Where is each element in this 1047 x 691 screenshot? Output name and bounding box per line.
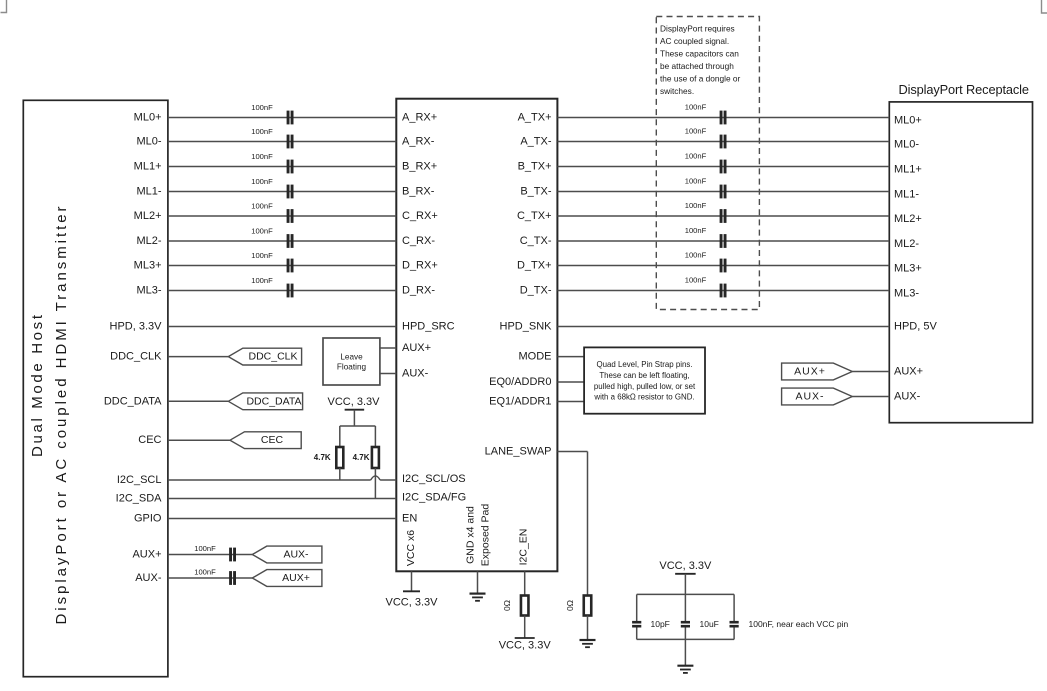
wire R2 to I2C_SDA	[374, 468, 376, 499]
wire R3 to VCC	[524, 616, 526, 639]
svg-text:AUX-: AUX-	[402, 368, 429, 380]
svg-text:AUX+: AUX+	[794, 366, 826, 378]
svg-text:LANE_SWAP: LANE_SWAP	[485, 446, 552, 458]
connector tag AUX+ (from host AUX-)	[252, 570, 322, 587]
resistor R2 4.7K	[372, 447, 379, 468]
wire GND stub	[477, 571, 479, 593]
capacitor 100nF (ML1- lane)	[287, 185, 290, 199]
svg-text:B_RX+: B_RX+	[402, 161, 437, 173]
wire VCC bar to rail	[353, 410, 355, 426]
DisplayPort Receptacle box	[889, 102, 1032, 423]
svg-text:A_TX+: A_TX+	[518, 112, 552, 124]
svg-text:be attached through: be attached through	[660, 61, 734, 71]
svg-text:ML0+: ML0+	[134, 112, 162, 124]
capacitor 100nF (ML0+ lane)	[287, 111, 290, 125]
ground (decoupling)	[677, 665, 693, 667]
capacitor 100nF (A_TX+ lane)	[720, 111, 723, 125]
wire MODE stub	[557, 356, 584, 358]
svg-text:ML1-: ML1-	[136, 186, 161, 198]
svg-text:VCC, 3.3V: VCC, 3.3V	[499, 639, 552, 651]
wire A_TX- to ML0- (receptacle)	[557, 141, 889, 143]
connector tag DDC_DATA	[228, 393, 302, 410]
wire B_TX+ to ML1+ (receptacle)	[557, 166, 889, 168]
wire VCC x6 stub	[411, 571, 413, 591]
wire pullup rail	[340, 425, 376, 427]
svg-text:I2C_SCL: I2C_SCL	[117, 474, 162, 486]
capacitor 100nF (D_TX- lane)	[720, 284, 723, 298]
svg-text:A_TX-: A_TX-	[520, 136, 552, 148]
svg-text:A_RX-: A_RX-	[402, 136, 435, 148]
wire cap top rail	[637, 593, 734, 595]
svg-text:pulled high, pulled low, or se: pulled high, pulled low, or set	[594, 382, 696, 391]
svg-text:D_RX+: D_RX+	[402, 260, 438, 272]
wire AUX- tag to receptacle	[852, 396, 889, 398]
svg-text:C_RX-: C_RX-	[402, 235, 435, 247]
svg-text:EN: EN	[402, 513, 417, 525]
wire R4 to ground	[587, 616, 589, 641]
wire ML2- to C_RX-	[168, 240, 396, 242]
svg-text:AUX+: AUX+	[402, 342, 431, 354]
wire LANE_SWAP horizontal	[557, 451, 587, 453]
wire ML0- to A_RX-	[168, 141, 396, 143]
svg-text:AC coupled signal.: AC coupled signal.	[660, 36, 729, 46]
capacitor C1 10pF	[636, 594, 638, 621]
wire D_TX- to ML3- (receptacle)	[557, 290, 889, 292]
svg-text:DisplayPort or AC coupled HDMI: DisplayPort or AC coupled HDMI Transmitt…	[53, 207, 70, 625]
svg-text:ML1-: ML1-	[894, 189, 919, 201]
svg-text:DisplayPort Receptacle: DisplayPort Receptacle	[899, 82, 1030, 97]
svg-text:DDC_CLK: DDC_CLK	[248, 351, 297, 363]
svg-text:100nF, near each VCC pin: 100nF, near each VCC pin	[749, 619, 849, 629]
svg-text:HPD_SNK: HPD_SNK	[500, 321, 553, 333]
wire HPD 3.3V to HPD_SRC	[168, 326, 396, 328]
svg-text:100nF: 100nF	[685, 177, 707, 186]
connector tag AUX- (receptacle)	[782, 388, 853, 405]
svg-text:These can be left floating,: These can be left floating,	[599, 371, 689, 380]
svg-text:10uF: 10uF	[700, 619, 719, 629]
svg-text:ML2+: ML2+	[894, 213, 922, 225]
svg-text:D_RX-: D_RX-	[402, 285, 435, 297]
svg-text:DDC_CLK: DDC_CLK	[110, 351, 162, 363]
wire Leave Floating to AUX+	[380, 347, 396, 349]
capacitor 100nF (A_TX- lane)	[720, 135, 723, 149]
wire rail to R2	[374, 426, 376, 447]
svg-text:DDC_DATA: DDC_DATA	[246, 395, 301, 407]
svg-text:ML0+: ML0+	[894, 115, 922, 127]
wire I2C_SDA to I2C_SDA/FG	[168, 498, 396, 500]
Leave Floating note box	[323, 338, 380, 385]
svg-text:CEC: CEC	[261, 434, 284, 446]
svg-text:the use of a dongle or: the use of a dongle or	[660, 73, 740, 83]
wire CEC	[168, 439, 230, 441]
svg-text:with a 68kΩ resistor to GND.: with a 68kΩ resistor to GND.	[593, 393, 694, 402]
resistor R4 0 ohm (LANE_SWAP)	[584, 596, 592, 616]
svg-text:100nF: 100nF	[251, 177, 273, 186]
capacitor 100nF (ML1+ lane)	[287, 160, 290, 174]
svg-text:ML0-: ML0-	[136, 136, 161, 148]
wire AUX+ (host) to tag	[168, 554, 252, 556]
svg-text:100nF: 100nF	[194, 544, 216, 553]
wire DDC_DATA	[168, 400, 228, 402]
quad-level pin strap note box	[584, 347, 705, 413]
svg-text:switches.: switches.	[660, 86, 694, 96]
svg-text:ML3-: ML3-	[136, 285, 161, 297]
svg-text:ML2-: ML2-	[136, 235, 161, 247]
svg-text:Floating: Floating	[337, 363, 367, 372]
wire GPIO to EN	[168, 518, 396, 520]
svg-text:100nF: 100nF	[685, 127, 707, 136]
wire ML1- to B_RX-	[168, 191, 396, 193]
svg-text:100nF: 100nF	[251, 152, 273, 161]
wire D_TX+ to ML3+ (receptacle)	[557, 265, 889, 267]
wire R1 to I2C_SCL	[339, 468, 341, 480]
capacitor 100nF (ML0- lane)	[287, 135, 290, 149]
svg-text:ML3+: ML3+	[134, 260, 162, 272]
capacitor C2 10uF	[684, 594, 686, 621]
svg-text:B_RX-: B_RX-	[402, 186, 435, 198]
capacitor 100nF (ML3+ lane)	[287, 259, 290, 273]
svg-text:AUX-: AUX-	[795, 391, 824, 403]
svg-text:I2C_EN: I2C_EN	[518, 529, 530, 566]
wire I2C_SCL to I2C_SCL/OS (with hop over R2 leg)	[168, 479, 371, 481]
svg-text:100nF: 100nF	[685, 201, 707, 210]
svg-text:GPIO: GPIO	[134, 513, 162, 525]
resistor R1 4.7K	[336, 447, 343, 468]
capacitor 100nF (D_TX+ lane)	[720, 259, 723, 273]
wire ML0+ to A_RX+	[168, 117, 396, 119]
connector tag AUX+ (receptacle)	[782, 363, 853, 380]
svg-text:Exposed Pad: Exposed Pad	[480, 504, 492, 567]
svg-text:100nF: 100nF	[251, 127, 273, 136]
svg-text:ML2-: ML2-	[894, 238, 919, 250]
svg-text:HPD_SRC: HPD_SRC	[402, 321, 455, 333]
svg-text:A_RX+: A_RX+	[402, 112, 437, 124]
svg-text:MODE: MODE	[519, 351, 552, 363]
svg-text:ML3-: ML3-	[894, 288, 919, 300]
svg-text:I2C_SDA/FG: I2C_SDA/FG	[402, 492, 466, 504]
resistor R3 0 ohm (I2C_EN)	[521, 596, 529, 616]
connector tag CEC	[230, 432, 301, 449]
svg-text:I2C_SDA: I2C_SDA	[116, 493, 163, 505]
svg-text:VCC, 3.3V: VCC, 3.3V	[386, 597, 439, 609]
svg-text:D_TX-: D_TX-	[520, 285, 552, 297]
svg-text:ML2+: ML2+	[134, 210, 162, 222]
svg-text:EQ1/ADDR1: EQ1/ADDR1	[489, 396, 551, 408]
svg-text:ML1+: ML1+	[894, 164, 922, 176]
svg-text:CEC: CEC	[138, 434, 161, 446]
ground (chip GND x4)	[470, 592, 486, 594]
svg-text:AUX-: AUX-	[135, 572, 162, 584]
svg-text:EQ0/ADDR0: EQ0/ADDR0	[489, 376, 551, 388]
svg-text:4.7K: 4.7K	[353, 453, 370, 462]
wire C_TX+ to ML2+ (receptacle)	[557, 215, 889, 217]
svg-text:C_RX+: C_RX+	[402, 210, 438, 222]
connector tag DDC_CLK	[228, 348, 301, 365]
wire rail to ground	[684, 639, 686, 665]
svg-text:AUX+: AUX+	[282, 572, 310, 584]
svg-text:I2C_SCL/OS: I2C_SCL/OS	[402, 473, 466, 485]
svg-text:ML3+: ML3+	[894, 263, 922, 275]
svg-text:Quad Level, Pin Strap pins.: Quad Level, Pin Strap pins.	[596, 360, 692, 369]
capacitor 100nF (AUX-)	[229, 571, 232, 585]
svg-text:HPD, 3.3V: HPD, 3.3V	[110, 321, 163, 333]
wire rail to R1	[339, 426, 341, 447]
wire AUX- (host) to tag	[168, 577, 252, 579]
wire LANE_SWAP vertical	[587, 452, 589, 596]
wire B_TX- to ML1- (receptacle)	[557, 191, 889, 193]
dashed note box: AC coupling capacitors note	[656, 17, 759, 310]
svg-text:100nF: 100nF	[194, 568, 216, 577]
svg-text:100nF: 100nF	[685, 226, 707, 235]
svg-text:100nF: 100nF	[685, 103, 707, 112]
wire ML3- to D_RX-	[168, 290, 396, 292]
svg-text:Leave: Leave	[340, 353, 363, 362]
capacitor 100nF (B_TX+ lane)	[720, 160, 723, 174]
wire ML3+ to D_RX+	[168, 265, 396, 267]
svg-text:100nF: 100nF	[251, 251, 273, 260]
svg-text:VCC x6: VCC x6	[405, 530, 417, 566]
wire A_TX+ to ML0+ (receptacle)	[557, 117, 889, 119]
wire cap bottom rail	[637, 638, 734, 640]
svg-text:C_TX+: C_TX+	[517, 210, 552, 222]
svg-text:100nF: 100nF	[251, 202, 273, 211]
capacitor 100nF (C_TX- lane)	[720, 234, 723, 248]
svg-text:100nF: 100nF	[685, 276, 707, 285]
svg-text:AUX+: AUX+	[132, 549, 161, 561]
svg-text:HPD, 5V: HPD, 5V	[894, 321, 937, 333]
bridge chip U1 box	[396, 99, 557, 572]
connector tag AUX- (from host AUX+)	[252, 546, 322, 563]
wire EQ1/ADDR1 stub	[557, 401, 584, 403]
wire DDC_CLK	[168, 356, 228, 358]
capacitor 100nF (ML2- lane)	[287, 234, 290, 248]
wire VCC to cap rail	[684, 574, 686, 595]
svg-text:10pF: 10pF	[651, 619, 670, 629]
svg-text:DDC_DATA: DDC_DATA	[104, 395, 162, 407]
svg-text:D_TX+: D_TX+	[517, 260, 552, 272]
capacitor 100nF (B_TX- lane)	[720, 185, 723, 199]
capacitor 100nF (AUX+)	[229, 548, 232, 562]
svg-text:100nF: 100nF	[685, 152, 707, 161]
wire C_TX- to ML2- (receptacle)	[557, 240, 889, 242]
capacitor 100nF (C_TX+ lane)	[720, 209, 723, 223]
wire Leave Floating to AUX-	[380, 373, 396, 375]
svg-text:B_TX-: B_TX-	[520, 186, 552, 198]
svg-text:VCC, 3.3V: VCC, 3.3V	[328, 396, 381, 408]
svg-text:AUX+: AUX+	[894, 366, 923, 378]
svg-text:These capacitors can: These capacitors can	[660, 48, 739, 58]
svg-text:100nF: 100nF	[685, 251, 707, 260]
svg-text:AUX-: AUX-	[894, 391, 921, 403]
svg-text:Dual Mode Host: Dual Mode Host	[29, 314, 46, 457]
svg-text:GND x4 and: GND x4 and	[465, 506, 477, 564]
wire ML2+ to C_RX+	[168, 215, 396, 217]
svg-text:0Ω: 0Ω	[502, 600, 512, 611]
svg-text:100nF: 100nF	[251, 276, 273, 285]
wire ML1+ to B_RX+	[168, 166, 396, 168]
wire I2C_EN stub	[524, 571, 526, 595]
capacitor 100nF (ML2+ lane)	[287, 209, 290, 223]
wire EQ0/ADDR0 stub	[557, 381, 584, 383]
ground (LANE_SWAP)	[580, 639, 596, 641]
capacitor 100nF (ML3- lane)	[287, 284, 290, 298]
svg-text:ML1+: ML1+	[134, 161, 162, 173]
power VCC 3.3V (I2C_EN pullup)	[515, 637, 535, 639]
wire AUX+ tag to receptacle	[852, 371, 889, 373]
svg-text:AUX-: AUX-	[283, 549, 309, 561]
svg-text:C_TX-: C_TX-	[520, 235, 552, 247]
Dual Mode Host transmitter box	[23, 100, 168, 676]
svg-text:ML0-: ML0-	[894, 139, 919, 151]
svg-text:4.7K: 4.7K	[314, 453, 331, 462]
wire HPD_SNK to HPD 5V	[557, 326, 889, 328]
svg-text:100nF: 100nF	[251, 103, 273, 112]
svg-text:VCC, 3.3V: VCC, 3.3V	[659, 560, 712, 572]
svg-text:B_TX+: B_TX+	[518, 161, 552, 173]
svg-text:DisplayPort requires: DisplayPort requires	[660, 24, 735, 34]
capacitor C3 100nF	[733, 594, 735, 621]
svg-text:0Ω: 0Ω	[565, 600, 575, 611]
power VCC 3.3V (chip VCC x6)	[403, 590, 420, 592]
svg-text:100nF: 100nF	[251, 227, 273, 236]
